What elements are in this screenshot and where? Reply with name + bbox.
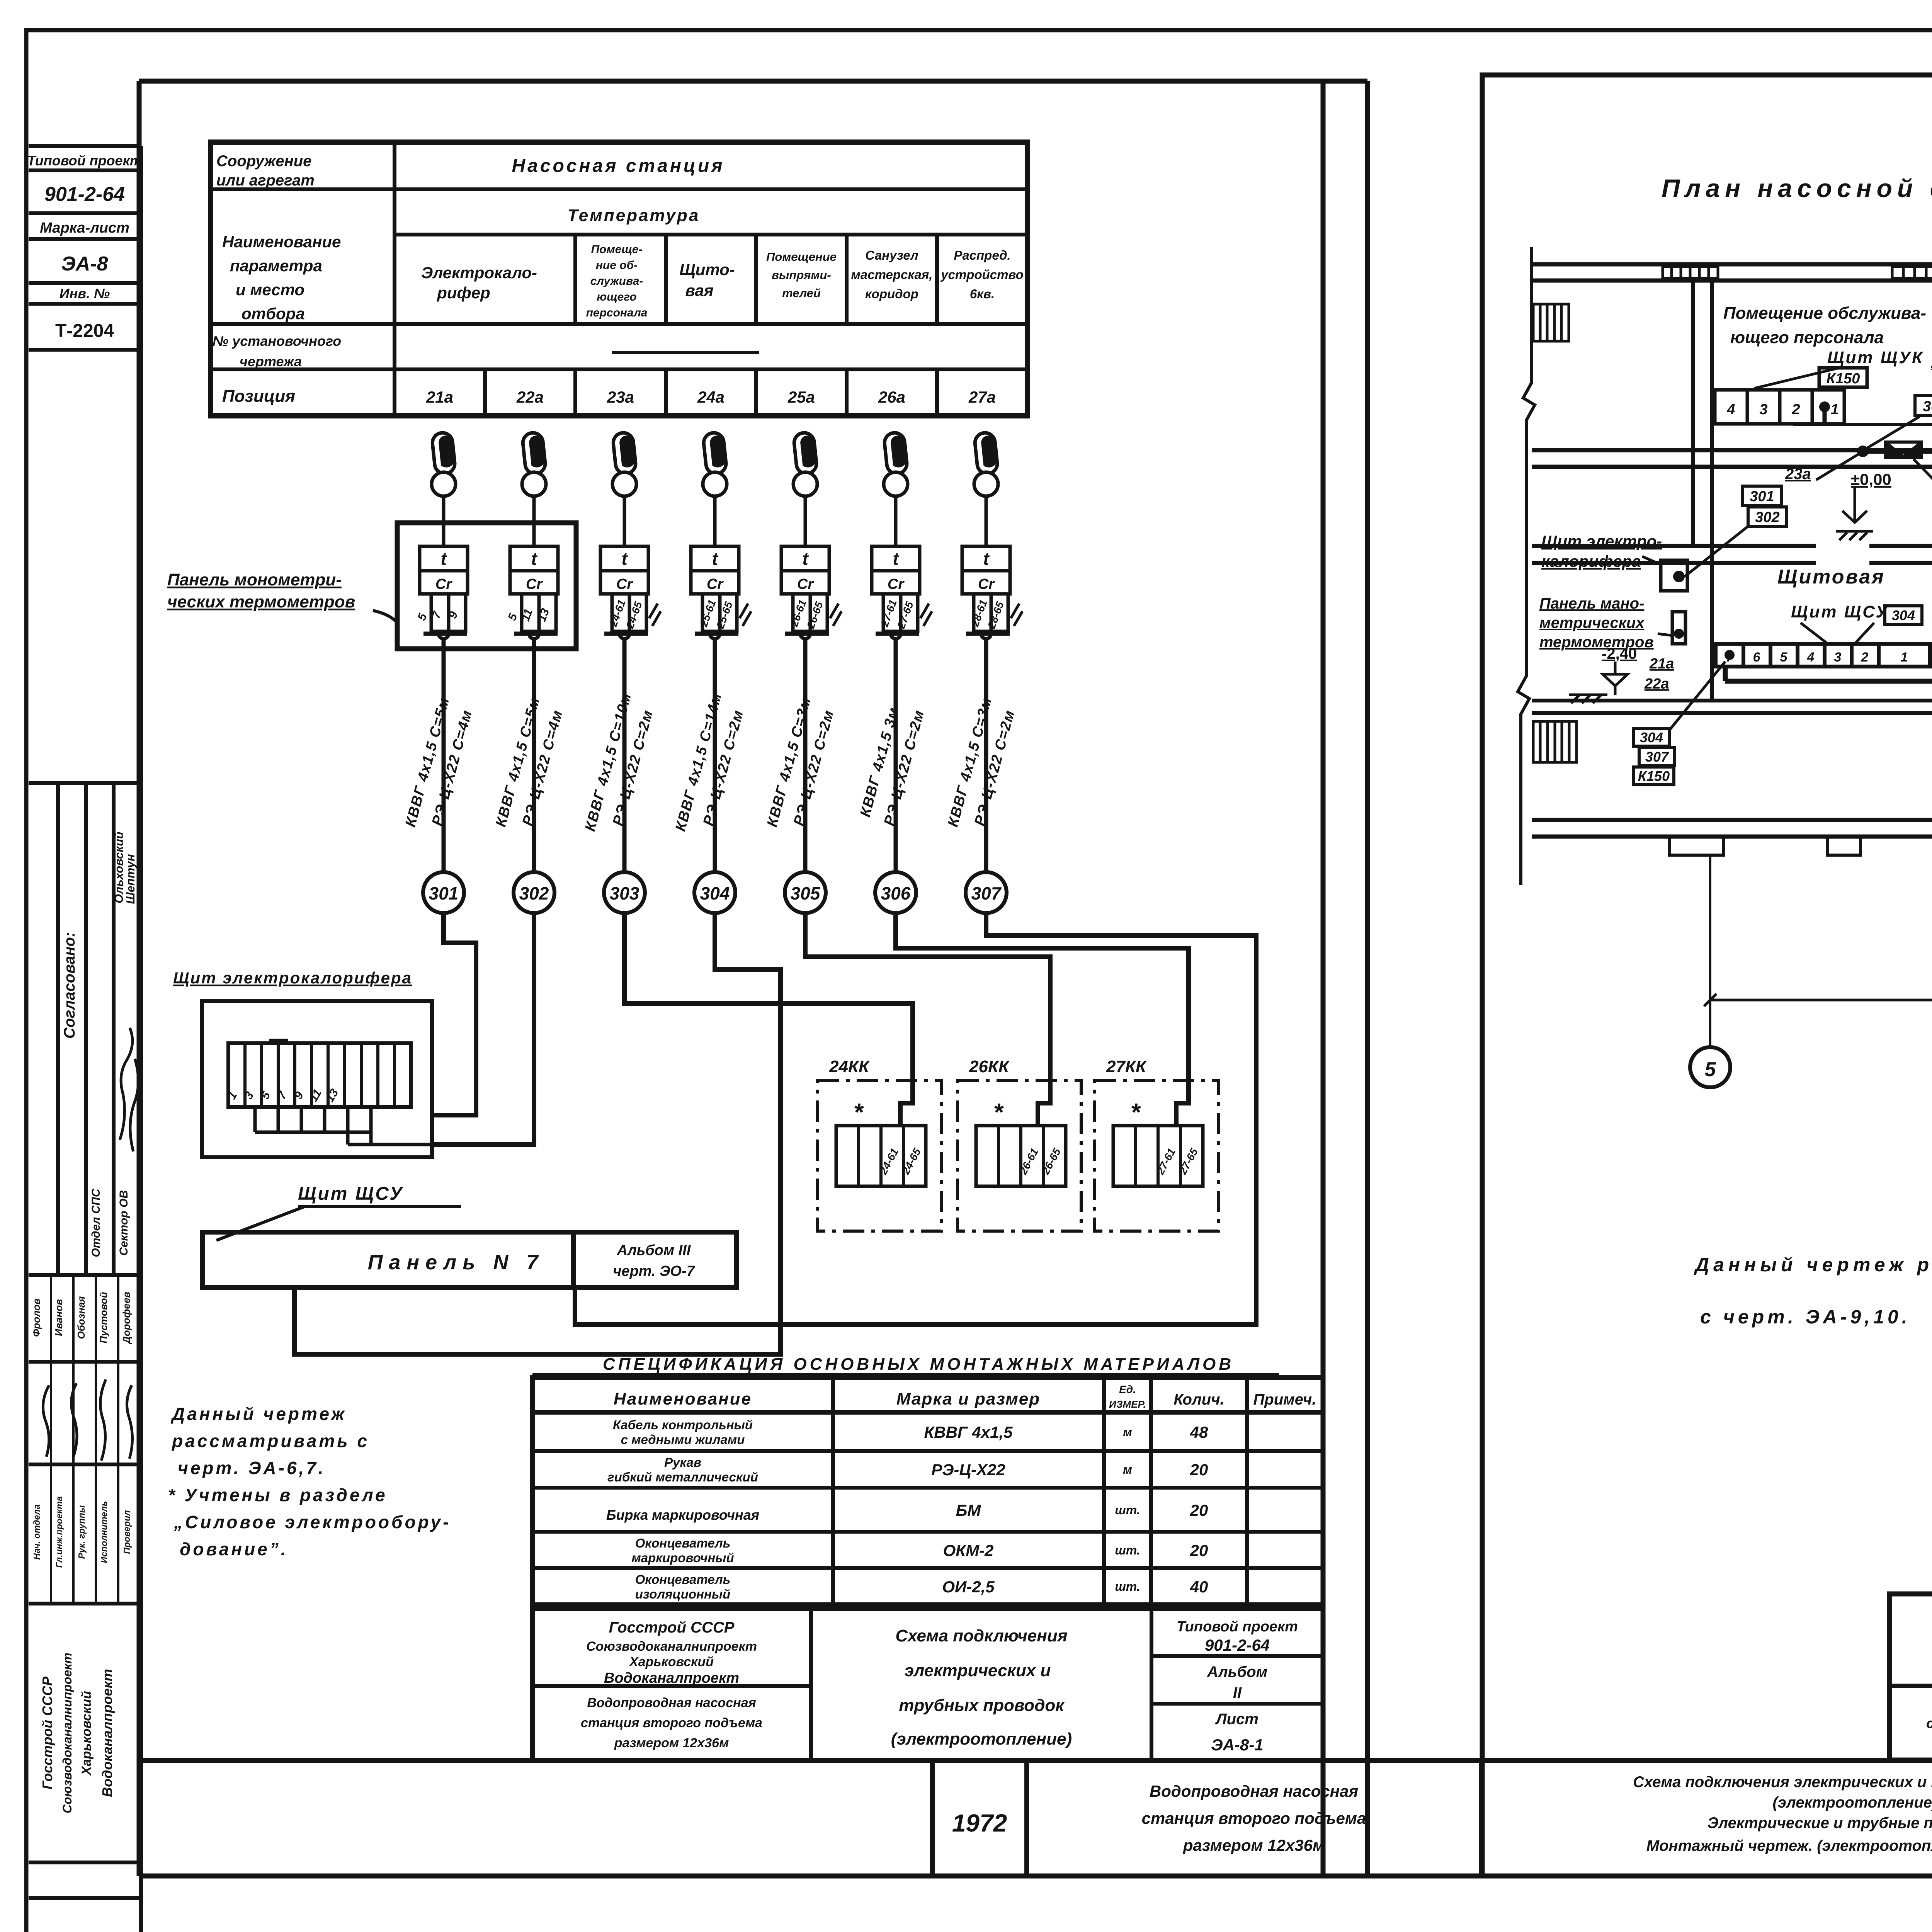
node circle 306	[875, 872, 916, 913]
svg-text:20: 20	[1190, 1461, 1208, 1479]
svg-text:Щитовая: Щитовая	[1777, 566, 1885, 588]
svg-text:Примеч.: Примеч.	[1253, 1391, 1316, 1408]
heater panel symbol	[1661, 560, 1687, 591]
svg-text:26КК: 26КК	[969, 1057, 1010, 1076]
wire cable 306	[894, 639, 898, 872]
svg-text:Наименование: Наименование	[614, 1389, 752, 1408]
svg-text:шт.: шт.	[1115, 1580, 1140, 1594]
svg-text:Иванов: Иванов	[53, 1299, 65, 1336]
panel N7 box	[202, 1232, 736, 1287]
svg-text:Колич.: Колич.	[1173, 1391, 1224, 1408]
labels 301 302 boxed	[1743, 486, 1787, 526]
sensor box t/Cr 27a	[962, 546, 1010, 639]
svg-text:23а: 23а	[1785, 466, 1811, 483]
heater panel box	[202, 1001, 476, 1157]
svg-text:Помеще-: Помеще-	[591, 243, 643, 256]
svg-text:маркировочный: маркировочный	[631, 1551, 734, 1565]
label 304 24a plan	[1885, 606, 1922, 624]
svg-text:Данный чертеж: Данный чертеж	[170, 1404, 347, 1424]
svg-text:ющего персонала: ющего персонала	[1730, 328, 1884, 347]
svg-text:302: 302	[519, 883, 549, 903]
stair hatch lower left	[1533, 721, 1577, 762]
svg-text:ИЗМЕР.: ИЗМЕР.	[1109, 1398, 1146, 1410]
svg-text:* Учтены в разделе: * Учтены в разделе	[168, 1485, 388, 1505]
wire 302 to heater panel	[433, 913, 534, 1145]
svg-text:II: II	[1233, 1684, 1242, 1701]
svg-text:Отдел СПС: Отдел СПС	[90, 1188, 102, 1257]
svg-text:901-2-64: 901-2-64	[1205, 1636, 1270, 1654]
svg-text:Рук. группы: Рук. группы	[77, 1505, 87, 1559]
svg-text:шт.: шт.	[1115, 1543, 1140, 1557]
svg-text:Исполнитель: Исполнитель	[99, 1501, 109, 1563]
svg-text:Рукав: Рукав	[664, 1455, 701, 1469]
grid column line 5	[1709, 855, 1711, 1047]
svg-text:20: 20	[1190, 1541, 1208, 1560]
svg-text:вая: вая	[685, 281, 714, 299]
svg-text:№ установочного: № установочного	[213, 333, 341, 349]
svg-text:25а: 25а	[787, 388, 815, 406]
thermometer T21a	[432, 432, 456, 546]
svg-text:РЭ-Ц-Х22: РЭ-Ц-Х22	[931, 1461, 1005, 1479]
svg-text:изоляционный: изоляционный	[635, 1587, 731, 1601]
right sheet title block	[1889, 1594, 1932, 1760]
svg-text:27КК: 27КК	[1106, 1057, 1147, 1076]
svg-text:и место: и место	[236, 281, 304, 299]
cable under SCHSU panel	[1725, 667, 1932, 681]
thermometer T27a	[974, 432, 998, 546]
svg-text:Щит ЩСУ: Щит ЩСУ	[298, 1184, 404, 1204]
schitovaya bottom wall	[1532, 701, 1932, 713]
svg-text:24а: 24а	[697, 388, 724, 406]
svg-text:ЭА-8: ЭА-8	[61, 253, 108, 275]
wire cable 304	[713, 639, 717, 872]
svg-text:Нач. отдела: Нач. отдела	[32, 1504, 42, 1560]
svg-text:Распред.: Распред.	[954, 248, 1010, 262]
window openings top wall	[1663, 267, 1718, 278]
shelf line under SCHUK	[1793, 423, 1932, 426]
svg-text:Электрические и трубные прово: Электрические и трубные проводоки	[1708, 1815, 1932, 1832]
svg-text:ние об-: ние об-	[596, 259, 638, 272]
thermometer T25a	[793, 432, 818, 546]
svg-text:ЭА-8-1: ЭА-8-1	[1211, 1736, 1263, 1754]
svg-text:48: 48	[1190, 1423, 1208, 1441]
svg-text:304: 304	[1892, 607, 1915, 623]
svg-text:Харьковский: Харьковский	[629, 1655, 714, 1669]
svg-text:*: *	[854, 1098, 864, 1126]
svg-text:Фролов: Фролов	[31, 1298, 42, 1337]
node circle 301	[423, 872, 464, 913]
svg-text:27а: 27а	[968, 388, 996, 406]
svg-text:304: 304	[700, 883, 730, 903]
svg-text:Госстрой СССР: Госстрой СССР	[39, 1676, 55, 1789]
svg-text:Водоканалпроект: Водоканалпроект	[604, 1670, 739, 1686]
svg-text:301: 301	[429, 883, 459, 903]
wire 303 to 24KK	[624, 913, 913, 1126]
bottom strip texts	[952, 1774, 1932, 1854]
svg-text:служива-: служива-	[590, 275, 643, 287]
parameter table texts	[213, 153, 725, 406]
svg-text:станция второго подъема: станция второго подъема	[581, 1716, 762, 1730]
svg-text:6: 6	[1753, 650, 1761, 665]
svg-text:303: 303	[1923, 398, 1932, 415]
svg-text:рифер: рифер	[437, 284, 490, 302]
dimension line 18000	[1704, 994, 1932, 1006]
svg-text:20: 20	[1190, 1501, 1208, 1519]
svg-text:Харьковский: Харьковский	[79, 1691, 94, 1776]
svg-text:5: 5	[1705, 1058, 1716, 1081]
svg-text:или агрегат: или агрегат	[216, 172, 315, 189]
parameter table grid	[211, 142, 1027, 416]
svg-text:2: 2	[1861, 650, 1869, 665]
svg-text:План насосной станции М 1:1: План насосной станции М 1:100 (электроот…	[1662, 174, 1932, 202]
svg-text:Гл.инж.проекта: Гл.инж.проекта	[54, 1496, 64, 1568]
svg-text:307: 307	[971, 883, 1002, 903]
svg-text:с медными жилами: с медными жилами	[621, 1432, 745, 1447]
wire 304 to panel N7	[294, 913, 781, 1354]
svg-text:t: t	[440, 549, 447, 569]
svg-text:Санузел: Санузел	[865, 248, 918, 262]
stair hatch upper left	[1533, 304, 1569, 341]
sensor box t/Cr 26a	[872, 546, 920, 639]
svg-text:КВВГ 4х1,5: КВВГ 4х1,5	[924, 1423, 1013, 1441]
svg-text:Ед.: Ед.	[1119, 1383, 1136, 1395]
svg-text:Союзводоканалнипроект: Союзводоканалнипроект	[60, 1653, 74, 1813]
svg-text:трубных проводок: трубных проводок	[899, 1696, 1065, 1715]
flex conduit tick	[649, 604, 661, 626]
building top exterior wall	[1532, 264, 1932, 837]
SCHSU panel plan	[1716, 644, 1930, 667]
svg-text:*: *	[994, 1098, 1004, 1126]
svg-text:Кабель контрольный: Кабель контрольный	[613, 1418, 753, 1432]
strip wires comb	[255, 1107, 476, 1145]
svg-text:ческих термометров: ческих термометров	[167, 592, 355, 611]
svg-text:1: 1	[1901, 650, 1908, 665]
svg-text:301: 301	[1750, 488, 1774, 505]
svg-text:СПЕЦИФИКАЦИЯ ОСНОВНЫХ МОНТ: СПЕЦИФИКАЦИЯ ОСНОВНЫХ МОНТАЖНЫХ МАТЕРИАЛ…	[603, 1355, 1234, 1374]
wire cable 307	[984, 639, 988, 872]
svg-text:t: t	[802, 549, 809, 569]
svg-text:4: 4	[1807, 650, 1815, 665]
svg-text:4: 4	[1726, 401, 1735, 418]
svg-text:24КК: 24КК	[829, 1057, 870, 1076]
svg-text:22а: 22а	[516, 388, 544, 406]
svg-text:гибкий металлический: гибкий металлический	[607, 1470, 758, 1484]
svg-text:Марка и размер: Марка и размер	[896, 1389, 1040, 1408]
svg-text:Инв. №: Инв. №	[60, 286, 110, 301]
sensor box t/Cr 23a	[600, 546, 648, 639]
svg-text:выпрями-: выпрями-	[772, 268, 831, 282]
svg-text:±0,00: ±0,00	[1851, 470, 1891, 488]
svg-text:302: 302	[1755, 509, 1779, 526]
svg-text:Cr: Cr	[797, 576, 814, 592]
svg-text:Щито-: Щито-	[679, 260, 735, 279]
svg-text:Водоканалпроект: Водоканалпроект	[99, 1669, 115, 1797]
svg-text:Пустовой: Пустовой	[98, 1292, 109, 1343]
svg-text:21а: 21а	[1649, 656, 1674, 672]
svg-text:станция второго подъема: станция второго подъема	[1926, 1715, 1932, 1731]
left break line	[1518, 247, 1535, 885]
labels 304 307 K150 boxed stack	[1634, 728, 1675, 785]
svg-text:Госстрой СССР: Госстрой СССР	[609, 1619, 735, 1636]
manometric panel symbol	[1672, 612, 1685, 644]
svg-text:t: t	[531, 549, 537, 569]
svg-text:черт. ЭО-7: черт. ЭО-7	[613, 1263, 695, 1279]
note text left sheet	[168, 1404, 451, 1559]
svg-text:303: 303	[610, 883, 639, 903]
svg-text:Схема подключения: Схема подключения	[895, 1626, 1067, 1645]
svg-text:Помещение: Помещение	[766, 250, 837, 264]
svg-text:„Силовое электрообору-: „Силовое электрообору-	[173, 1512, 451, 1532]
svg-text:калорифера: калорифера	[1541, 552, 1641, 570]
SCHUK terminal panel	[1715, 390, 1844, 424]
svg-text:рассматривать с: рассматривать с	[171, 1431, 369, 1451]
svg-text:коридор: коридор	[865, 287, 918, 301]
flex conduit tick	[920, 604, 932, 626]
label K150	[1819, 368, 1867, 387]
thermometer T24a	[703, 432, 727, 546]
svg-text:мастерская,: мастерская,	[851, 267, 933, 282]
thermometer T23a	[612, 432, 637, 546]
svg-text:t: t	[983, 549, 990, 569]
spec table header	[606, 1383, 1316, 1601]
thermometer T26a	[884, 432, 908, 546]
svg-text:Панель монометри-: Панель монометри-	[167, 570, 342, 589]
svg-text:Типовой проект: Типовой проект	[1177, 1619, 1298, 1635]
sensor box t/Cr 24a	[691, 546, 739, 639]
svg-text:электрических и: электрических и	[905, 1661, 1051, 1680]
svg-text:21а: 21а	[426, 388, 453, 406]
svg-text:Cr: Cr	[978, 576, 995, 592]
svg-text:с черт. ЭА-9,10.: с черт. ЭА-9,10.	[1700, 1306, 1911, 1328]
heavy cable wall run with 24KK sensor	[1863, 449, 1932, 454]
svg-text:Оконцеватель: Оконцеватель	[635, 1536, 731, 1550]
svg-text:t: t	[712, 549, 718, 569]
svg-text:Сооружение: Сооружение	[216, 153, 311, 170]
node circle 302	[514, 872, 554, 913]
node circle 305	[785, 872, 826, 913]
svg-text:Схема подключения электрически: Схема подключения электрических и трубны…	[1633, 1774, 1932, 1791]
wire 307 to panel N7	[575, 913, 1256, 1325]
svg-text:Cr: Cr	[707, 576, 724, 592]
svg-text:Проверил: Проверил	[122, 1510, 132, 1554]
svg-text:Альбом: Альбом	[1207, 1663, 1267, 1680]
svg-text:t: t	[621, 549, 628, 569]
thermometer T22a	[522, 432, 546, 546]
svg-text:устройство: устройство	[940, 267, 1024, 282]
flex conduit tick	[830, 604, 842, 626]
svg-text:Шептун: Шептун	[124, 854, 137, 904]
svg-text:3: 3	[1834, 650, 1842, 665]
svg-text:Помещение обслужива-: Помещение обслужива-	[1723, 304, 1926, 323]
svg-text:Щит ЩУК: Щит ЩУК	[1827, 348, 1924, 367]
svg-text:Обозная: Обозная	[75, 1296, 87, 1339]
svg-text:26а: 26а	[878, 388, 905, 406]
svg-text:Панель мано-: Панель мано-	[1539, 595, 1644, 612]
svg-text:Щит электрокалорифера: Щит электрокалорифера	[173, 969, 412, 987]
interior partition walls upper band	[1532, 264, 1932, 811]
svg-text:отбора: отбора	[241, 304, 305, 323]
svg-text:Союзводоканалнипроект: Союзводоканалнипроект	[586, 1639, 757, 1654]
svg-text:Т-2204: Т-2204	[55, 321, 114, 341]
bottom strip grid	[139, 1760, 1932, 1876]
wire cable 302	[532, 639, 536, 872]
sensor box t/Cr 21a	[420, 546, 468, 639]
svg-text:Насосная станция: Насосная станция	[512, 156, 724, 176]
spec table grid	[532, 1378, 1323, 1605]
svg-text:3: 3	[1759, 401, 1767, 418]
svg-text:шт.: шт.	[1115, 1503, 1140, 1517]
svg-text:Оконцеватель: Оконцеватель	[635, 1572, 731, 1587]
svg-text:черт. ЭА-6,7.: черт. ЭА-6,7.	[178, 1458, 326, 1478]
svg-text:(электроотопление).: (электроотопление).	[1773, 1794, 1932, 1811]
svg-text:-2,40: -2,40	[1602, 645, 1637, 662]
svg-text:ОКМ-2: ОКМ-2	[943, 1541, 994, 1560]
panel of manometric thermometers box	[397, 523, 576, 649]
svg-text:К150: К150	[1827, 371, 1860, 387]
middle horizontal wall band A	[1532, 450, 1932, 467]
bottom exterior wall	[1532, 820, 1932, 837]
svg-text:Температура: Температура	[568, 206, 700, 225]
svg-text:Cr: Cr	[888, 576, 905, 592]
svg-text:(электроотопление): (электроотопление)	[891, 1730, 1072, 1748]
svg-text:БМ: БМ	[956, 1501, 981, 1519]
stamp: project id boxes	[27, 153, 142, 341]
terminal strip	[228, 1043, 411, 1107]
svg-text:306: 306	[881, 883, 911, 903]
svg-text:Cr: Cr	[435, 576, 452, 592]
svg-text:Cr: Cr	[526, 576, 543, 592]
wire cable 301	[442, 639, 446, 872]
svg-text:Бирка маркировочная: Бирка маркировочная	[606, 1507, 759, 1523]
svg-text:размером 12х36м: размером 12х36м	[614, 1736, 729, 1750]
svg-text:Лист: Лист	[1215, 1711, 1259, 1728]
svg-text:*: *	[1131, 1098, 1141, 1126]
svg-text:размером 12х36м: размером 12х36м	[1183, 1836, 1325, 1854]
svg-text:дование”.: дование”.	[180, 1539, 288, 1559]
svg-text:307: 307	[1645, 749, 1669, 765]
svg-text:Согласовано:: Согласовано:	[61, 932, 78, 1039]
svg-text:Щит ЩСУ: Щит ЩСУ	[1791, 602, 1889, 621]
svg-text:Монтажный чертеж. (электроот: Монтажный чертеж. (электроотопление).	[1646, 1837, 1932, 1854]
svg-text:Водопроводная насосная: Водопроводная насосная	[1150, 1782, 1358, 1800]
svg-text:Cr: Cr	[616, 576, 633, 592]
right sheet frame	[1482, 75, 1932, 1876]
svg-text:1972: 1972	[952, 1809, 1007, 1837]
sensor box t/Cr 22a	[510, 546, 558, 639]
svg-text:ющего: ющего	[597, 291, 637, 303]
node circle 303	[604, 872, 645, 913]
label 303 boxed	[1915, 396, 1932, 416]
svg-text:ОИ-2,5: ОИ-2,5	[942, 1578, 995, 1596]
svg-text:22а: 22а	[1644, 676, 1669, 692]
room labels	[1723, 291, 1932, 685]
svg-text:5: 5	[1780, 650, 1788, 665]
wire cable 305	[803, 639, 808, 872]
svg-text:м: м	[1123, 1463, 1132, 1476]
flex conduit tick	[740, 604, 751, 626]
svg-text:станция второго подъема: станция второго подъема	[1142, 1809, 1366, 1827]
svg-text:Дорофеев: Дорофеев	[121, 1292, 132, 1344]
svg-text:Марка-лист: Марка-лист	[40, 220, 129, 236]
wire 306 to 27KK	[896, 913, 1189, 1126]
svg-text:К150: К150	[1638, 768, 1670, 784]
svg-text:м: м	[1123, 1425, 1132, 1439]
svg-text:телей: телей	[782, 286, 821, 300]
svg-text:Сектор ОВ: Сектор ОВ	[117, 1190, 130, 1256]
svg-text:Водопроводная насосная: Водопроводная насосная	[587, 1696, 756, 1710]
svg-text:2: 2	[1791, 401, 1800, 418]
svg-text:Щит электро-: Щит электро-	[1541, 532, 1662, 550]
pilasters bottom wall	[1669, 837, 1723, 855]
svg-text:персонала: персонала	[586, 306, 648, 319]
node circle 304	[694, 872, 735, 913]
svg-text:Данный чертеж рассматривать: Данный чертеж рассматривать	[1694, 1254, 1932, 1276]
svg-text:Позиция: Позиция	[222, 387, 295, 406]
svg-text:6кв.: 6кв.	[970, 287, 995, 301]
schitovaya north wall band B with door gap	[1532, 546, 1932, 563]
svg-text:40: 40	[1190, 1578, 1208, 1596]
svg-text:23а: 23а	[607, 388, 634, 406]
svg-text:Альбом III: Альбом III	[617, 1242, 691, 1259]
node circle 307	[966, 872, 1007, 913]
svg-text:304: 304	[1640, 730, 1663, 745]
sensor box t/Cr 25a	[781, 546, 829, 639]
svg-text:Электрокало-: Электрокало-	[421, 264, 537, 282]
flex conduit tick	[1011, 604, 1022, 626]
svg-text:метрических: метрических	[1539, 614, 1645, 631]
wire cable 303	[622, 639, 627, 872]
wire 301 to heater panel	[433, 913, 476, 1115]
wire 305 to 26KK	[805, 913, 1050, 1126]
svg-text:Панель N 7: Панель N 7	[368, 1251, 544, 1274]
24KK envelope symbol	[1885, 442, 1922, 457]
svg-text:параметра: параметра	[230, 257, 322, 275]
svg-text:t: t	[893, 549, 899, 569]
svg-text:чертежа: чертежа	[240, 354, 302, 369]
svg-text:901-2-64: 901-2-64	[44, 183, 125, 206]
svg-text:1: 1	[1830, 401, 1838, 418]
svg-text:Наименование: Наименование	[222, 233, 341, 251]
left sheet title block	[532, 1609, 1323, 1760]
svg-text:Типовой проект: Типовой проект	[27, 153, 142, 168]
svg-text:305: 305	[791, 883, 821, 903]
stamp column grid	[29, 146, 141, 1932]
